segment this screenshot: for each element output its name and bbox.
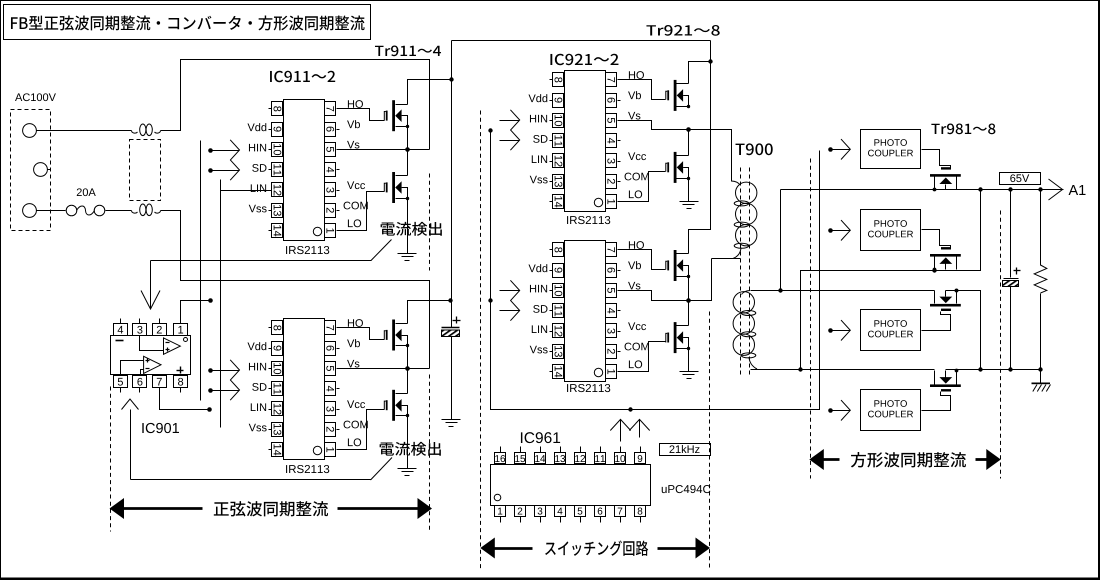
line filter winding bottom — [132, 204, 161, 216]
chassis ground output — [1032, 370, 1051, 392]
capacitor C981 — [1003, 190, 1019, 370]
wire PC4 to Tr981d gate — [922, 392, 951, 411]
node bus dot upper — [449, 77, 453, 81]
ground C901 — [442, 420, 461, 427]
node rail dots — [978, 187, 1042, 191]
T900 secondary winding — [733, 291, 757, 370]
transistor Q Tr981c — [930, 289, 961, 311]
label T900 — [736, 143, 773, 155]
op-amp driver IC911 upper (IRS2113) body+pins — [269, 100, 340, 241]
photocoupler PC3 input marker — [828, 320, 850, 340]
label IRS2113 lower — [286, 465, 329, 473]
IC921 lower pin labels — [528, 241, 648, 368]
section dashed line sine-right — [429, 174, 431, 532]
box 21kHz — [660, 444, 711, 456]
arrow down to IC901 — [141, 261, 160, 310]
photocoupler PC2 input marker — [828, 220, 850, 240]
label Tr921~8 — [646, 25, 719, 36]
node Vs lower dot — [405, 366, 410, 371]
node SD upper IC911 — [208, 160, 239, 180]
IC911 lower pin labels — [247, 319, 367, 446]
wire secondary bottom S2 — [751, 369, 935, 371]
label Tr911~4 — [375, 46, 441, 57]
photocoupler PC4 input marker — [828, 400, 850, 420]
wire Tr911b source to ground — [407, 199, 409, 254]
wire Tr921b source to ground — [688, 179, 690, 202]
wire common output rail — [946, 369, 1041, 371]
node rail dot — [708, 59, 712, 63]
capacitor C981 plus mark — [1014, 268, 1021, 275]
node Vs 921 lower dot — [686, 298, 691, 303]
wire Tr921a drain to rail — [689, 62, 711, 84]
transistor Q Tr921b — [666, 152, 690, 183]
label 20A — [77, 188, 96, 196]
photocoupler PC1 box — [861, 130, 921, 169]
pwm IC961 uPC494C body — [491, 465, 651, 506]
wire Tr911d source to ground — [407, 416, 409, 469]
wire Tr911c drain to bus — [408, 301, 451, 324]
resistor R981 — [1034, 190, 1047, 370]
wire main bus left section — [451, 41, 453, 328]
ground 921 upper — [680, 202, 699, 209]
label IC921~2 — [550, 54, 618, 65]
section arrow 正弦波同期整流 — [110, 498, 433, 519]
transistor Q Tr911a — [384, 100, 409, 131]
wire S2 riser to rail2 — [801, 271, 957, 370]
node Vs 921 upper dot — [686, 127, 691, 132]
wire Tr981c source drop — [946, 291, 981, 370]
wire HO upper IC921 — [621, 80, 666, 100]
node HIN upper IC921 — [500, 110, 520, 130]
transistor Q Tr981d — [930, 369, 961, 392]
wire rail to Tr921c drain — [689, 41, 711, 254]
wire common drop — [491, 131, 820, 410]
wire HO lower IC911 — [340, 328, 385, 340]
transistor Q Tr921d — [666, 322, 690, 353]
wire PC1 to Tr981a gate — [922, 150, 951, 168]
driver IC921 upper (IRS2113) body+pins — [550, 71, 621, 212]
label IC911~2 — [270, 71, 335, 82]
wire Vs lower IC911 — [340, 346, 430, 369]
wire IC901 pin7 output — [160, 388, 212, 412]
section arrow 方形波同期整流 — [809, 449, 1001, 470]
transistor Q Tr911d — [384, 390, 409, 421]
IC901 top pins 4 3 2 1 — [114, 319, 188, 336]
wire IC901 pin1 output — [181, 298, 213, 323]
label AC100V — [15, 93, 56, 101]
title text FB型正弦波同期整流・コンバータ・方形波同期整流 — [11, 15, 365, 30]
wire LO lower IC921 — [621, 342, 666, 372]
arrow up to IC901 — [122, 399, 139, 480]
wire LO upper IC911 — [340, 192, 385, 231]
label uPC494C — [662, 485, 711, 493]
IC901 output circle mark — [184, 338, 188, 342]
label Tr981~8 — [931, 124, 995, 135]
line filter winding top — [132, 124, 161, 136]
wire Tr911a drain to bus — [408, 80, 452, 105]
label current sense upper 電流検出 — [381, 222, 442, 236]
IC961 bottom pins 1-8 — [495, 506, 646, 523]
op-amp B inside IC901 — [121, 356, 162, 375]
node HIN lower IC911 — [208, 360, 239, 380]
T900 core dashed — [741, 168, 750, 378]
section dashed line sine-left — [110, 387, 112, 532]
IC961 pin1 circle — [494, 494, 501, 501]
connector CN1 dashed box — [11, 110, 51, 231]
op-amp A inside IC901 — [140, 336, 181, 355]
wire HO lower IC921 — [621, 250, 666, 270]
IC901 bottom pins 5 6 7 8 — [114, 376, 188, 393]
box 65V — [1000, 173, 1041, 185]
label IRS2113 921 lower — [567, 384, 610, 392]
node HIN upper IC911 — [208, 140, 239, 160]
wire HO upper IC911 — [340, 109, 385, 121]
node SD lower IC921 — [500, 300, 520, 320]
IC901 plus mark — [177, 367, 184, 374]
section dashed line sw-right — [709, 312, 711, 570]
label IC901 — [142, 423, 179, 433]
wire control bus B — [220, 180, 222, 428]
section dashed line sw-left — [480, 111, 482, 570]
label IRS2113 921 upper — [567, 216, 610, 224]
node bus dot lower — [448, 298, 452, 302]
wire LO lower IC911 — [340, 410, 385, 450]
node Vs upper dot — [405, 147, 410, 152]
wire Tr911d drain to Vs — [407, 369, 409, 394]
wire LIN upper from bus B — [221, 190, 269, 192]
node S1 dot — [778, 288, 782, 292]
photocoupler PC2 box — [861, 210, 921, 251]
CN1 terminal mid — [34, 163, 51, 177]
transistor Q Tr921c — [666, 250, 690, 281]
CN1 terminal bottom — [23, 204, 37, 218]
T900 primary winding — [732, 181, 757, 259]
output arrow A1 — [1049, 179, 1086, 200]
photocoupler PC3 box — [861, 310, 921, 351]
IC911 upper pin labels — [247, 100, 367, 227]
IC901 minus mark — [116, 340, 124, 342]
fuse F1 20A — [66, 205, 105, 216]
ground upper left leg — [398, 254, 417, 261]
wire LO upper IC921 — [621, 172, 666, 202]
arrow IC961 pin9 up — [629, 419, 649, 437]
wire secondary top S1 — [751, 190, 935, 291]
wire Vs upper IC921 — [621, 121, 732, 182]
wire AC hot riser to upper Vs — [161, 60, 430, 150]
photocoupler PC1 input marker — [828, 139, 850, 159]
wire sense lower with leader — [131, 458, 393, 481]
wire Tr921d source to ground — [688, 349, 690, 372]
wire fuse to filter — [106, 210, 132, 212]
wire Vs lower IC921 — [621, 259, 712, 301]
ground lower left leg — [398, 469, 417, 476]
line filter L900 core dashed box — [130, 140, 161, 201]
wire PC2 to Tr981b gate — [922, 230, 951, 248]
wire AC neutral to lower Vs — [161, 211, 430, 369]
wire Tr911b drain to Vs — [407, 150, 409, 176]
label IRS2113 upper — [286, 246, 329, 254]
wire 65V rail — [781, 189, 1064, 191]
wire sense upper with leader — [151, 240, 392, 261]
transistor Q Tr981a — [930, 167, 961, 191]
capacitor C901 — [442, 328, 460, 337]
wire Tr921d drain to Vs — [688, 301, 690, 326]
wire AC bottom to fuse — [37, 210, 66, 212]
node common dot upper — [488, 128, 492, 132]
wire top bus link — [452, 40, 711, 42]
transistor Q Tr911c — [384, 320, 409, 351]
wire Tr921c source to Vs — [688, 277, 690, 301]
driver IC921 lower (IRS2113) body+pins — [550, 241, 621, 382]
wire primary bottom return — [712, 258, 741, 260]
arrow IC961 pin10 up — [610, 419, 630, 441]
transistor Q Tr981b — [930, 247, 961, 271]
wire control bus A — [200, 141, 202, 401]
wire Tr981b source riser — [957, 190, 981, 271]
transistor Q Tr911b — [384, 172, 409, 203]
node S2 dot — [798, 367, 802, 371]
wire AC top to filter — [37, 130, 132, 132]
capacitor C901 plus mark — [453, 317, 461, 324]
ground 921 lower — [680, 372, 699, 379]
wire Vs upper IC911 — [340, 127, 430, 150]
IC921 upper pin labels — [528, 71, 648, 198]
transistor Q Tr921a — [666, 80, 690, 111]
section arrow スイッチング回路 — [480, 538, 710, 559]
CN1 terminal top — [23, 124, 37, 138]
op-amp driver IC911 lower (IRS2113) body+pins — [269, 319, 340, 460]
node common dot mid — [488, 298, 492, 302]
node SD upper IC921 — [500, 130, 520, 150]
title box — [4, 5, 371, 40]
node HIN lower IC921 — [500, 280, 520, 300]
label current sense lower 電流検出 — [380, 442, 441, 456]
section dashed line sq-right — [1000, 211, 1002, 479]
wire PC3 to Tr981c gate — [922, 312, 951, 331]
comparator IC901 body — [111, 336, 191, 375]
node rail2 dot — [932, 268, 936, 272]
IC961 top pins 16-9 — [495, 447, 646, 464]
node common line dot — [628, 407, 632, 411]
photocoupler PC4 box — [861, 390, 921, 431]
node common rail dots — [955, 289, 1043, 372]
wire C901 to ground — [451, 337, 453, 420]
label IC961 — [521, 432, 560, 443]
node SD lower IC911 — [208, 380, 239, 400]
wire Tr921b drain to Vs — [688, 130, 690, 156]
section dashed line sq-left — [810, 159, 812, 479]
